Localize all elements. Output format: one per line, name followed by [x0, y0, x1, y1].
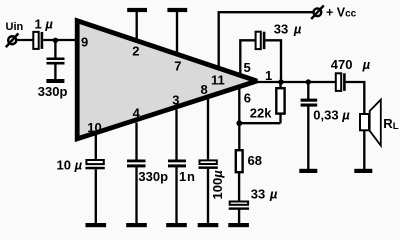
svg-text:68: 68 — [248, 153, 262, 168]
capacitor 1n (pin 3) — [168, 160, 186, 168]
wire 0.33µ to ground — [307, 106, 309, 169]
ground (speaker) — [354, 169, 372, 173]
svg-text:10: 10 — [87, 120, 101, 135]
capacitor 10µ (electrolytic) — [85, 160, 104, 169]
wire 10µ to ground — [95, 169, 97, 223]
svg-text:1: 1 — [265, 68, 272, 83]
capacitor 100µ (electrolytic, pin 8) — [199, 160, 218, 169]
svg-text:2: 2 — [132, 44, 139, 59]
+Vcc terminal — [311, 5, 324, 19]
wire speaker to ground — [363, 131, 365, 170]
ground (pin 7, top bar) — [167, 8, 187, 12]
pin 5 wire (feedback left) — [240, 40, 255, 76]
svg-text:7: 7 — [174, 59, 181, 74]
ground (input) — [46, 79, 64, 83]
wire C1 to pin 9 — [43, 39, 78, 41]
svg-text:1 µ: 1 µ — [35, 17, 54, 32]
wire 33µ to ground — [238, 210, 240, 224]
svg-text:470 µ: 470 µ — [331, 57, 371, 72]
wire 100µ to ground — [207, 169, 209, 224]
wire 330p to ground — [135, 167, 137, 224]
pin 6 wire — [238, 88, 240, 123]
pin 7 wire — [176, 10, 178, 56]
wire 470µ to speaker — [346, 82, 365, 114]
wire 68 to 33µ — [238, 173, 240, 201]
junction node output/feedback — [278, 79, 283, 84]
capacitor 0.33µ — [301, 99, 318, 107]
ground (pin 2, top bar) — [127, 8, 147, 12]
input terminal Uin — [6, 33, 19, 47]
junction node at input — [53, 38, 58, 43]
resistor 68 — [236, 123, 243, 172]
svg-text:1n: 1n — [179, 169, 196, 184]
wire junction down to C2 — [54, 40, 56, 58]
svg-text:10 µ: 10 µ — [57, 157, 83, 172]
svg-text:330p: 330p — [38, 84, 68, 99]
svg-text:33 µ: 33 µ — [274, 21, 302, 36]
ground (pin 10) — [86, 223, 107, 227]
ground (pin 3) — [166, 223, 187, 227]
speaker RL — [360, 100, 381, 146]
resistor 22k — [276, 82, 284, 123]
pin 10 wire — [95, 135, 97, 160]
pin 4 wire — [135, 123, 137, 161]
svg-text:0,33 µ: 0,33 µ — [313, 108, 350, 123]
capacitor 470µ (series output, electrolytic) — [336, 73, 346, 91]
svg-text:+ Vcc: + Vcc — [326, 6, 357, 20]
svg-text:4: 4 — [133, 106, 141, 121]
capacitor 330p (pin 4) — [127, 160, 146, 168]
ground (pin 4) — [126, 223, 147, 227]
pin 11 wire to +Vcc — [219, 12, 314, 69]
svg-text:RL: RL — [383, 116, 398, 132]
svg-text:22k: 22k — [250, 105, 272, 120]
wire pin6 junction to 22k — [239, 122, 280, 124]
svg-text:6: 6 — [244, 90, 251, 105]
svg-text:Uin: Uin — [6, 21, 24, 33]
pin 8 wire — [207, 99, 209, 160]
svg-text:33 µ: 33 µ — [251, 186, 278, 201]
capacitor 33µ (pin6 branch, electrolytic) — [229, 202, 249, 210]
pin 2 wire — [136, 10, 138, 42]
ground (pin6 branch) — [228, 223, 249, 227]
amplifier IC U1 (triangle body) — [77, 21, 257, 139]
wire feedback right — [265, 40, 281, 82]
svg-text:8: 8 — [201, 82, 208, 97]
svg-text:100µ: 100µ — [210, 170, 225, 200]
pin 3 wire — [175, 110, 177, 161]
svg-text:11: 11 — [211, 72, 225, 87]
capacitor 1µ (electrolytic, series input) — [33, 32, 43, 49]
capacitor 330p (input shunt) — [47, 58, 65, 65]
ground (0.33µ branch) — [299, 169, 317, 173]
capacitor 33µ (feedback, electrolytic) — [256, 32, 266, 49]
svg-text:5: 5 — [244, 60, 251, 75]
junction node pin6 — [236, 120, 242, 126]
wire C2 to ground — [54, 64, 56, 80]
ground (pin 8) — [198, 223, 219, 227]
svg-text:330p: 330p — [138, 169, 168, 184]
pin 1 output wire — [254, 81, 336, 83]
svg-text:9: 9 — [81, 35, 88, 50]
wire input to C1 — [15, 39, 33, 41]
wire 1n to ground — [175, 167, 177, 224]
junction node output/0.33µ — [306, 79, 311, 84]
svg-text:3: 3 — [172, 93, 179, 108]
capacitor 0.33µ branch wire — [307, 82, 309, 99]
